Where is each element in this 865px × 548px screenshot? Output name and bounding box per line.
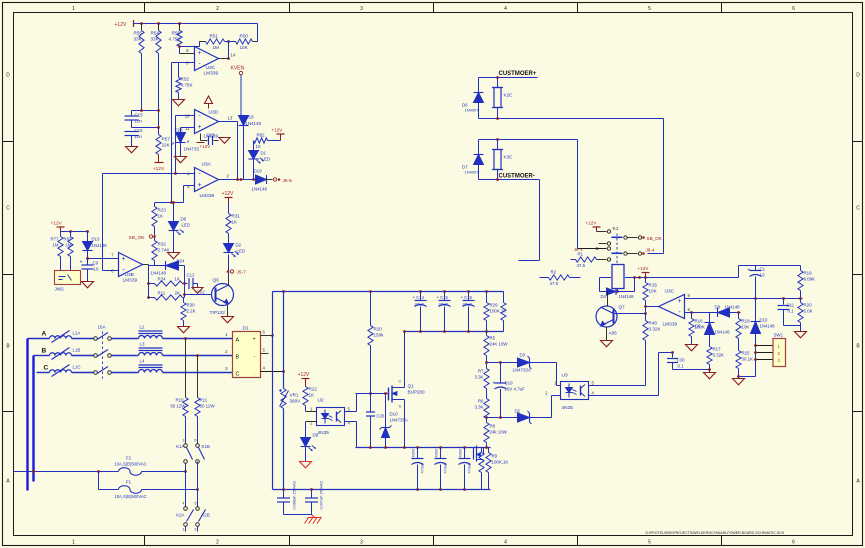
wire Q1 gate row — [369, 392, 372, 395]
svg-text:+12V: +12V — [638, 266, 650, 271]
svg-text:L4: L4 — [140, 359, 145, 364]
wire D2 to U3 pin2 — [530, 417, 552, 419]
svg-text:5: 5 — [648, 540, 651, 546]
svg-text:F1: F1 — [126, 480, 132, 485]
wire D1 to J5-5 row — [253, 159, 255, 180]
capacitor C18 450V — [468, 292, 470, 301]
power +12V inverted at R57 — [158, 155, 160, 163]
wire U3 pin5 to R48 — [589, 385, 646, 387]
svg-text:11: 11 — [185, 126, 190, 131]
wire D2 to R31 — [228, 244, 230, 253]
svg-text:JW2: JW2 — [55, 287, 65, 292]
capacitor C1 10 — [755, 266, 757, 271]
wire C to switch — [72, 372, 94, 374]
inductor L2 — [139, 336, 163, 339]
svg-text:D6: D6 — [695, 324, 701, 329]
svg-text:47uF: 47uF — [439, 302, 449, 307]
svg-text:R23: R23 — [158, 208, 167, 213]
mosfet Q1 BUP200 — [388, 388, 390, 401]
fuse F2 — [185, 463, 187, 471]
svg-text:J6-4: J6-4 — [646, 248, 655, 253]
wire Q6 base — [183, 293, 186, 296]
svg-text:L1B: L1B — [73, 348, 81, 353]
ground C16 — [126, 147, 138, 153]
svg-text:+12V: +12V — [51, 221, 63, 227]
svg-text:D24: D24 — [177, 259, 186, 264]
svg-text:2.2K: 2.2K — [187, 309, 196, 314]
resistor R83 — [70, 232, 72, 237]
op-amp U3D — [195, 110, 219, 134]
wire B to switch — [72, 355, 94, 357]
svg-text:10n: 10n — [135, 119, 143, 124]
relay contact K1B — [197, 417, 199, 444]
svg-text:CUSTMOER-: CUSTMOER- — [499, 174, 535, 180]
relay coil K2C — [494, 88, 501, 108]
svg-text:470uF: 470uF — [468, 462, 472, 473]
capacitor C11 0.1 — [782, 297, 785, 300]
svg-text:R54: R54 — [151, 31, 160, 36]
svg-text:+ C14: + C14 — [413, 295, 425, 300]
wire C to L4 — [111, 372, 138, 374]
capacitor C15 450V — [444, 292, 446, 301]
svg-text:U3C: U3C — [206, 65, 216, 71]
capacitor C22 X2 — [311, 490, 313, 498]
svg-text:3: 3 — [360, 540, 363, 546]
decoupling C13 at U3D — [200, 134, 202, 141]
relay K1 contact a — [597, 231, 607, 233]
svg-text:LED: LED — [182, 223, 191, 228]
wire D24 to x184 — [179, 265, 185, 267]
svg-text:3: 3 — [360, 6, 363, 12]
svg-text:6: 6 — [194, 439, 196, 443]
svg-text:16A: 16A — [98, 325, 107, 330]
svg-text:A: A — [42, 331, 47, 338]
resistor R19 9.09K — [800, 266, 802, 271]
svg-text:1M: 1M — [66, 243, 72, 248]
svg-text:D9: D9 — [313, 433, 319, 438]
svg-text:LED: LED — [262, 157, 271, 162]
svg-text:+: + — [493, 381, 496, 387]
svg-text:R51: R51 — [210, 34, 219, 39]
varistor VR1 — [281, 389, 286, 409]
svg-text:5: 5 — [648, 6, 651, 12]
svg-text:A06: A06 — [609, 331, 618, 336]
svg-text:D10: D10 — [760, 318, 768, 323]
svg-text:R82: R82 — [257, 133, 266, 138]
op-amp U3C — [195, 47, 219, 71]
svg-text:R48: R48 — [649, 321, 658, 326]
wire HV+ rail — [273, 291, 504, 293]
wire divider top row — [487, 362, 518, 364]
svg-text:1: 1 — [72, 540, 75, 546]
diode D6 1N4007 — [478, 78, 480, 93]
svg-text:R32: R32 — [158, 242, 167, 247]
svg-text:C: C — [856, 206, 860, 212]
resistor R32 — [152, 241, 157, 261]
wire U3C output feedback — [219, 58, 229, 60]
svg-text:R17: R17 — [713, 347, 722, 352]
svg-text:SW1: SW1 — [774, 333, 784, 338]
ground D9 red — [305, 447, 307, 462]
svg-text:10n: 10n — [135, 134, 143, 139]
svg-text:+ C18: + C18 — [461, 295, 473, 300]
wire D1 pin6 — [261, 335, 273, 337]
svg-text:D: D — [6, 73, 10, 79]
svg-text:Q6: Q6 — [213, 278, 220, 284]
relay K1 coil — [612, 265, 624, 289]
svg-text:R7: R7 — [478, 369, 484, 374]
wire Q1 drain to caps row — [404, 332, 406, 367]
connector J5-5 — [267, 179, 273, 181]
resistor R15 10K — [643, 283, 648, 301]
svg-text:0.1: 0.1 — [788, 309, 795, 314]
svg-text:R18: R18 — [742, 319, 751, 324]
relay K1 gang dashed — [616, 234, 618, 265]
wire U2 pin5 to gate — [345, 411, 357, 413]
svg-text:LM339: LM339 — [200, 193, 215, 199]
transistor Q6 TIP122 — [212, 284, 234, 306]
svg-text:D2: D2 — [236, 243, 242, 248]
svg-text:R34: R34 — [158, 277, 167, 282]
svg-text:+12V: +12V — [298, 372, 310, 378]
svg-text:K3C: K3C — [504, 155, 514, 160]
wire U3A pin4 long row — [103, 173, 195, 175]
optocoupler U2 4N35 — [317, 408, 345, 426]
wire U3A output row J5-5 — [219, 179, 256, 181]
wire Q6 collector / J5-7 — [228, 276, 230, 286]
capacitor C19 — [500, 363, 502, 383]
svg-text:L1C: L1C — [73, 365, 81, 370]
ground Q7 — [606, 327, 608, 341]
svg-text:R56: R56 — [172, 31, 181, 36]
wire U3B pin6 row — [103, 270, 119, 272]
svg-text:4N35: 4N35 — [318, 430, 330, 436]
svg-text:D8: D8 — [181, 217, 187, 222]
resistor R2 47.5 — [540, 277, 549, 279]
ground R20 C11 — [795, 332, 807, 338]
svg-text:D19: D19 — [254, 169, 263, 174]
svg-text:+: + — [677, 298, 681, 305]
resistor R52 — [178, 63, 180, 78]
svg-text:-: - — [254, 354, 256, 360]
svg-text:3.3K: 3.3K — [474, 375, 483, 380]
svg-text:2: 2 — [194, 528, 196, 532]
svg-text:1: 1 — [72, 6, 75, 12]
svg-text:1N4148: 1N4148 — [760, 324, 776, 329]
resistor R7 3.3K — [484, 369, 489, 389]
power arrow above U3D — [208, 104, 210, 109]
svg-text:A: A — [236, 338, 240, 344]
inductor L1B — [50, 353, 72, 356]
svg-text:R5: R5 — [490, 336, 496, 341]
svg-text:R6: R6 — [478, 399, 484, 404]
svg-text:10K: 10K — [649, 289, 658, 294]
svg-text:1N4733A: 1N4733A — [513, 368, 531, 373]
svg-text:K1: K1 — [613, 226, 619, 232]
svg-text:R25: R25 — [742, 351, 751, 356]
svg-text:LED: LED — [237, 249, 246, 254]
svg-text:1K: 1K — [232, 220, 239, 225]
svg-text:47.5: 47.5 — [550, 281, 559, 286]
svg-text:C11: C11 — [787, 303, 795, 308]
resistor R54 — [158, 24, 160, 31]
resistor R17 3.32K — [707, 347, 712, 365]
wire SW1 common to R25 gnd — [739, 376, 756, 378]
wire phase A — [28, 338, 50, 340]
svg-text:D:\PROTEL99SE\PROJECTS\WELDER\: D:\PROTEL99SE\PROJECTS\WELDER\SCH\MAIN-P… — [646, 531, 785, 535]
wire U3D output — [219, 121, 238, 123]
svg-text:KVEN: KVEN — [231, 66, 245, 72]
node R51-R50 — [227, 40, 230, 43]
ground R30 — [183, 321, 185, 327]
ground R16 — [686, 345, 698, 351]
svg-text:R10: R10 — [175, 398, 184, 403]
svg-text:2: 2 — [216, 6, 219, 12]
wire B to D1 pin2 — [163, 355, 233, 357]
wire U3 pin4 to C30 node — [589, 395, 659, 397]
wire switch bottom row — [356, 447, 491, 449]
diode D8h horizontal — [718, 308, 730, 317]
wire K3C loop bottom — [479, 179, 540, 181]
relay K1 moving contact row1 — [612, 236, 623, 238]
svg-text:R52: R52 — [181, 77, 190, 82]
wire HV- row — [273, 489, 491, 491]
svg-text:1N4148: 1N4148 — [619, 294, 635, 299]
zener D2 1N4733A — [518, 413, 530, 422]
wire D3 to U3 — [530, 362, 557, 364]
svg-text:5.0K: 5.0K — [804, 309, 813, 314]
ground R52 — [173, 100, 185, 106]
svg-text:1N4007: 1N4007 — [464, 170, 479, 175]
svg-text:LM339: LM339 — [663, 322, 678, 328]
svg-text:1K: 1K — [175, 277, 180, 282]
wire caps bottom row — [406, 331, 504, 333]
svg-text:C9: C9 — [93, 261, 99, 266]
svg-text:+12V: +12V — [200, 144, 212, 149]
wire U2 pin1 — [306, 411, 317, 413]
resistor R1 47.5 — [571, 259, 576, 261]
svg-text:R20: R20 — [374, 327, 383, 332]
svg-text:0.1: 0.1 — [678, 364, 685, 369]
resistor R10 50 12W — [185, 339, 187, 398]
svg-text:1M: 1M — [53, 243, 59, 248]
svg-text:400V: 400V — [435, 448, 439, 457]
wire K3C loop top — [479, 139, 578, 141]
svg-text:470uF: 470uF — [444, 462, 448, 473]
svg-text:50 12W: 50 12W — [170, 404, 186, 409]
capacitor C16 — [125, 131, 139, 133]
svg-text:U3B: U3B — [125, 272, 134, 278]
wire top rail — [134, 23, 258, 25]
wire U3D pin11 row — [181, 127, 195, 129]
svg-text:50 12W: 50 12W — [200, 404, 216, 409]
svg-text:R11: R11 — [200, 398, 208, 403]
svg-text:U3: U3 — [562, 373, 568, 379]
svg-text:C16: C16 — [135, 128, 144, 133]
svg-text:1N4735A: 1N4735A — [390, 418, 408, 423]
diode D19 — [252, 178, 255, 181]
transistor Q7 A06 — [596, 306, 617, 327]
optocoupler U3 4N35 — [561, 382, 589, 400]
wire U3C output to base node — [646, 306, 659, 308]
wire R55 to C15 row — [141, 54, 143, 111]
fuse F1 — [98, 472, 100, 490]
svg-text:K2B: K2B — [202, 513, 210, 518]
svg-text:10K: 10K — [240, 45, 249, 50]
svg-text:400V: 400V — [412, 448, 416, 457]
svg-text:R55: R55 — [134, 31, 143, 36]
svg-text:C: C — [399, 380, 402, 384]
svg-text:C30: C30 — [677, 358, 686, 363]
svg-text:24K 10W: 24K 10W — [490, 342, 509, 347]
ground Q6 emitter — [227, 305, 229, 317]
wire +12V rail to C1 — [646, 277, 739, 279]
svg-text:C: C — [236, 372, 240, 378]
svg-text:+: + — [197, 182, 201, 189]
inductor L1C — [50, 370, 72, 373]
svg-text:R2: R2 — [551, 270, 557, 275]
wire A to L2 — [111, 338, 138, 340]
op-amp U3B — [119, 253, 143, 277]
svg-text:2K: 2K — [175, 291, 180, 296]
svg-text:0.047uF 250VAC: 0.047uF 250VAC — [320, 480, 324, 509]
wire K1 coil loop — [600, 277, 612, 279]
svg-text:2.74K: 2.74K — [158, 248, 171, 253]
svg-text:LM339: LM339 — [123, 278, 138, 284]
resistor R57 — [156, 135, 161, 155]
inductor L4 — [139, 370, 163, 373]
wire K2C loop bottom to K1 — [479, 118, 664, 120]
svg-text:4.75K: 4.75K — [181, 83, 194, 88]
wire U3D pin10 row — [176, 115, 195, 117]
ground R25 — [733, 379, 745, 385]
svg-text:10: 10 — [94, 267, 99, 272]
svg-text:100K,1K: 100K,1K — [492, 460, 509, 465]
svg-text:1K: 1K — [309, 393, 316, 398]
svg-text:+: + — [80, 260, 83, 266]
wire Q7 collector — [607, 292, 609, 307]
svg-text:14: 14 — [231, 53, 236, 58]
diode D24 — [166, 261, 179, 270]
svg-text:4: 4 — [504, 540, 507, 546]
svg-text:1M: 1M — [213, 45, 220, 50]
svg-text:D8: D8 — [715, 305, 721, 310]
svg-text:R11: R11 — [158, 291, 166, 296]
wire C15 top row — [132, 110, 159, 112]
svg-text:33K: 33K — [151, 37, 160, 42]
zener D10 1N4735A — [385, 394, 387, 428]
svg-text:1N4148: 1N4148 — [252, 187, 268, 192]
net SB_OK — [154, 227, 156, 241]
svg-text:3.32K: 3.32K — [649, 327, 662, 332]
svg-text:1N4148: 1N4148 — [151, 271, 167, 276]
svg-text:2: 2 — [216, 540, 219, 546]
svg-text:L2: L2 — [140, 325, 145, 330]
svg-text:1K: 1K — [256, 144, 261, 149]
resistor R11 2K — [147, 296, 150, 299]
svg-text:R22: R22 — [309, 387, 318, 392]
svg-text:K1A: K1A — [176, 444, 184, 449]
svg-text:1N4007: 1N4007 — [464, 108, 479, 113]
svg-text:K1B: K1B — [202, 444, 210, 449]
wire D1 pin4 — [261, 371, 284, 373]
wire U2 pin4 to bottom row — [345, 421, 357, 423]
power +12V at R31 — [228, 201, 230, 214]
LED D2 — [224, 244, 234, 253]
svg-text:47uF: 47uF — [463, 302, 473, 307]
svg-text:D18: D18 — [246, 115, 255, 120]
svg-text:9.09K: 9.09K — [804, 277, 816, 282]
LED D8 — [173, 203, 175, 222]
svg-text:6: 6 — [792, 540, 795, 546]
svg-text:22K: 22K — [162, 143, 171, 148]
svg-text:+12V: +12V — [222, 191, 234, 197]
ground C9 — [82, 282, 94, 288]
resistor R77 — [60, 232, 62, 237]
svg-text:C12: C12 — [187, 273, 196, 278]
mosfet Q2 small — [473, 448, 475, 460]
switch gang dashed — [102, 332, 104, 379]
svg-text:1N4733: 1N4733 — [184, 147, 200, 152]
relay K1 contact b stub — [599, 243, 607, 245]
wire phase B — [34, 355, 50, 357]
LED D1 — [253, 141, 255, 151]
zener D3 1N4733A — [518, 358, 530, 367]
resistor R6 3.3K — [484, 399, 489, 419]
svg-text:R8: R8 — [490, 424, 496, 429]
svg-text:33K: 33K — [134, 37, 143, 42]
svg-text:3.3K: 3.3K — [474, 405, 483, 410]
resistor R18 10K — [737, 311, 740, 314]
svg-text:6: 6 — [792, 6, 795, 12]
svg-text:C19: C19 — [505, 381, 514, 386]
svg-text:BUP200: BUP200 — [408, 390, 426, 395]
svg-text:L1A: L1A — [73, 331, 81, 336]
resistor R25 30.1K — [736, 351, 741, 369]
resistor R50 — [236, 39, 253, 44]
capacitor C20 — [370, 394, 372, 412]
svg-text:R19: R19 — [804, 271, 813, 276]
svg-text:D3: D3 — [520, 353, 526, 358]
svg-text:16V 4.7uF: 16V 4.7uF — [505, 387, 526, 392]
capacitor C12 — [185, 283, 188, 285]
relay contact K2A — [185, 472, 187, 507]
capacitor 400V 470uF no2 — [440, 448, 442, 459]
svg-text:D1: D1 — [243, 326, 249, 332]
svg-text:+ C15: + C15 — [437, 295, 449, 300]
svg-text:30.1K: 30.1K — [742, 357, 754, 362]
ground R17 — [704, 373, 716, 379]
diode D13 — [87, 232, 89, 242]
switch 16A pole C — [94, 371, 98, 375]
wire divider bottom row — [487, 417, 518, 419]
resistor R29 — [486, 292, 488, 303]
resistor R9 pair — [481, 448, 483, 453]
svg-text:K2A: K2A — [176, 513, 184, 518]
svg-text:24k 10W: 24k 10W — [490, 430, 508, 435]
wire C16 mid row — [132, 127, 159, 129]
inductor L3 — [139, 353, 163, 356]
svg-text:+12V: +12V — [115, 22, 127, 28]
wire pin8 long vertical — [171, 63, 173, 203]
resistor R56 — [179, 24, 181, 31]
chassis ground — [312, 515, 315, 518]
svg-text:LM339: LM339 — [204, 71, 219, 77]
svg-text:B: B — [236, 355, 240, 361]
resistor R82 — [254, 138, 268, 143]
capacitor 400V 470uF no3 — [464, 448, 466, 459]
svg-text:B: B — [42, 348, 47, 355]
